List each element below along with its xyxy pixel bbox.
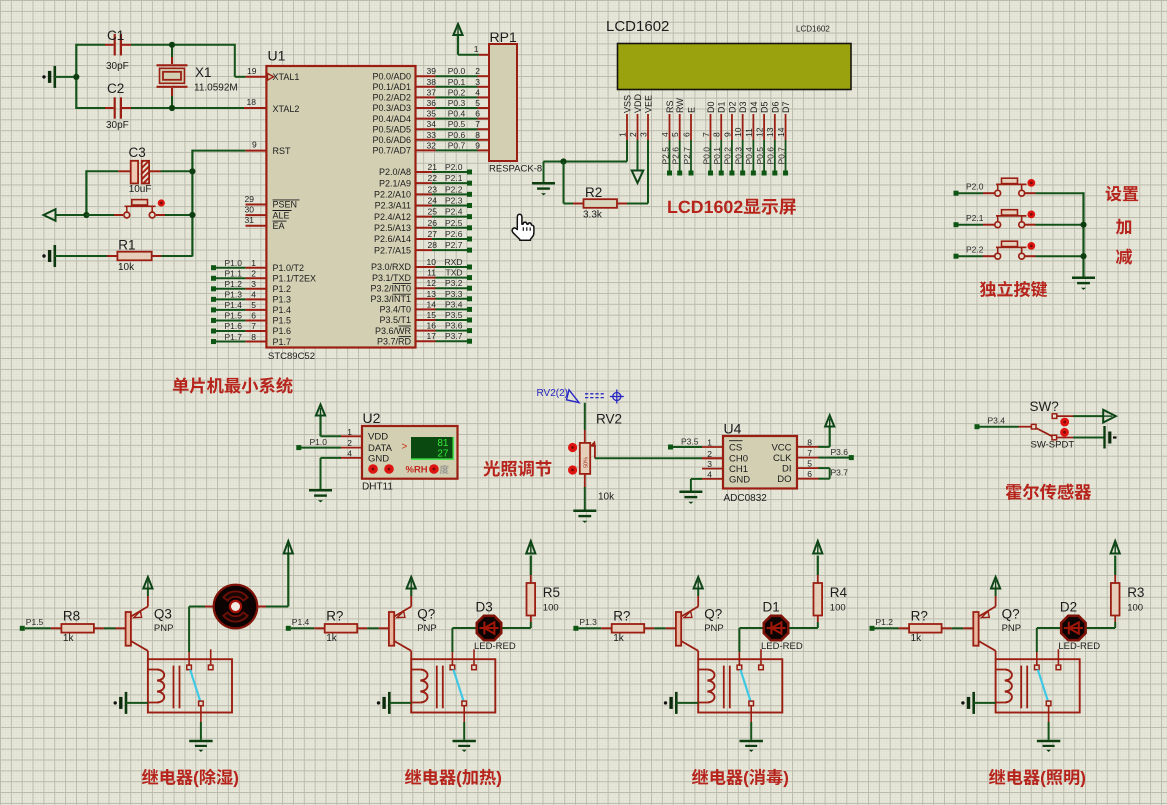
svg-text:34: 34 bbox=[427, 119, 437, 129]
svg-text:P1.3: P1.3 bbox=[225, 290, 243, 300]
svg-text:39: 39 bbox=[427, 66, 437, 76]
svg-text:U1: U1 bbox=[268, 48, 286, 64]
svg-text:33: 33 bbox=[427, 130, 437, 140]
svg-text:36: 36 bbox=[427, 98, 437, 108]
svg-text:7: 7 bbox=[475, 119, 480, 129]
svg-text:RST: RST bbox=[273, 146, 292, 156]
svg-text:8: 8 bbox=[251, 332, 256, 342]
svg-text:PNP: PNP bbox=[1002, 623, 1022, 634]
svg-text:R?: R? bbox=[911, 609, 928, 624]
svg-text:P0.1/AD1: P0.1/AD1 bbox=[372, 82, 411, 92]
svg-text:6: 6 bbox=[475, 109, 480, 119]
svg-text:ALE: ALE bbox=[273, 210, 290, 220]
svg-text:1: 1 bbox=[251, 258, 256, 268]
svg-text:14: 14 bbox=[427, 299, 437, 309]
svg-text:9: 9 bbox=[252, 140, 257, 150]
svg-text:P2.6: P2.6 bbox=[445, 229, 463, 239]
svg-text:P0.4: P0.4 bbox=[744, 147, 754, 165]
svg-text:R8: R8 bbox=[63, 609, 80, 624]
svg-text:7: 7 bbox=[251, 321, 256, 331]
svg-text:4: 4 bbox=[347, 448, 352, 458]
svg-text:P0.7/AD7: P0.7/AD7 bbox=[372, 146, 411, 156]
svg-text:RP1: RP1 bbox=[490, 29, 517, 45]
svg-text:12: 12 bbox=[427, 278, 437, 288]
svg-text:VDD: VDD bbox=[633, 93, 643, 113]
svg-text:10: 10 bbox=[733, 127, 743, 137]
svg-text:2: 2 bbox=[475, 66, 480, 76]
svg-text:31: 31 bbox=[245, 215, 255, 225]
svg-text:P1.7: P1.7 bbox=[225, 332, 243, 342]
svg-text:P0.6: P0.6 bbox=[766, 147, 776, 165]
svg-text:RW: RW bbox=[675, 98, 685, 113]
svg-text:1k: 1k bbox=[326, 633, 338, 644]
svg-text:P1.5: P1.5 bbox=[26, 617, 44, 627]
svg-text:P1.2: P1.2 bbox=[225, 279, 243, 289]
svg-text:R1: R1 bbox=[118, 238, 135, 253]
svg-text:P2.0: P2.0 bbox=[966, 182, 984, 192]
svg-text:P3.6: P3.6 bbox=[445, 321, 463, 331]
svg-text:100: 100 bbox=[543, 603, 559, 614]
svg-text:6: 6 bbox=[251, 311, 256, 321]
svg-text:SW-SPDT: SW-SPDT bbox=[1031, 440, 1075, 451]
svg-text:10: 10 bbox=[427, 257, 437, 267]
svg-text:P1.4: P1.4 bbox=[292, 617, 310, 627]
svg-text:VEE: VEE bbox=[644, 95, 654, 113]
svg-text:P1.0: P1.0 bbox=[310, 437, 328, 447]
svg-text:GND: GND bbox=[368, 453, 389, 464]
svg-text:R4: R4 bbox=[830, 585, 848, 600]
svg-text:1: 1 bbox=[347, 427, 352, 437]
svg-text:X1: X1 bbox=[195, 65, 212, 80]
svg-text:P2.2: P2.2 bbox=[445, 184, 463, 194]
svg-text:9: 9 bbox=[475, 140, 480, 150]
svg-text:D2: D2 bbox=[727, 101, 737, 113]
svg-text:P2.2/A10: P2.2/A10 bbox=[374, 190, 411, 200]
svg-text:C1: C1 bbox=[107, 28, 124, 43]
svg-text:25: 25 bbox=[428, 207, 438, 217]
svg-text:19: 19 bbox=[247, 66, 257, 76]
svg-text:LCD1602: LCD1602 bbox=[796, 25, 830, 34]
svg-text:11: 11 bbox=[427, 268, 436, 278]
svg-text:RESPACK-8: RESPACK-8 bbox=[489, 164, 542, 175]
svg-text:P2.6/A14: P2.6/A14 bbox=[374, 234, 411, 244]
svg-text:P1.6: P1.6 bbox=[273, 326, 292, 336]
svg-text:2: 2 bbox=[628, 132, 638, 137]
svg-text:P2.6: P2.6 bbox=[671, 147, 681, 165]
svg-text:D6: D6 bbox=[770, 101, 780, 113]
svg-text:P3.0/RXD: P3.0/RXD bbox=[371, 262, 412, 272]
svg-text:P1.1/T2EX: P1.1/T2EX bbox=[273, 273, 317, 283]
svg-text:D7: D7 bbox=[781, 101, 791, 113]
svg-text:8: 8 bbox=[807, 437, 812, 447]
svg-text:P1.3: P1.3 bbox=[273, 295, 292, 305]
svg-text:D5: D5 bbox=[760, 101, 770, 113]
svg-text:P0.0: P0.0 bbox=[448, 66, 466, 76]
svg-text:P0.1: P0.1 bbox=[448, 77, 466, 87]
svg-text:29: 29 bbox=[245, 194, 255, 204]
svg-text:P0.6: P0.6 bbox=[448, 130, 466, 140]
svg-text:5: 5 bbox=[670, 132, 680, 137]
svg-text:Q?: Q? bbox=[417, 607, 435, 622]
svg-text:E: E bbox=[687, 107, 697, 113]
svg-text:P1.0: P1.0 bbox=[225, 258, 243, 268]
svg-text:PSEN: PSEN bbox=[273, 200, 298, 210]
svg-text:4: 4 bbox=[251, 290, 256, 300]
svg-text:3: 3 bbox=[475, 77, 480, 87]
svg-text:37: 37 bbox=[427, 87, 437, 97]
svg-text:Q?: Q? bbox=[704, 607, 722, 622]
svg-text:4: 4 bbox=[660, 132, 670, 137]
svg-text:P2.0/A8: P2.0/A8 bbox=[379, 167, 411, 177]
svg-text:P0.4/AD4: P0.4/AD4 bbox=[372, 114, 411, 124]
svg-text:P3.4: P3.4 bbox=[988, 416, 1006, 426]
svg-text:XTAL2: XTAL2 bbox=[273, 104, 300, 114]
svg-text:D2: D2 bbox=[1060, 600, 1077, 615]
svg-text:P3.4/T0: P3.4/T0 bbox=[379, 305, 411, 315]
svg-text:P3.6/WR: P3.6/WR bbox=[375, 326, 412, 336]
svg-text:30: 30 bbox=[245, 205, 255, 215]
svg-text:P2.3/A11: P2.3/A11 bbox=[375, 201, 411, 211]
svg-text:P1.0/T2: P1.0/T2 bbox=[273, 263, 305, 273]
svg-text:P1.1: P1.1 bbox=[225, 268, 243, 278]
svg-text:2: 2 bbox=[707, 449, 712, 459]
svg-text:P0.2: P0.2 bbox=[448, 87, 466, 97]
svg-text:LCD1602: LCD1602 bbox=[606, 18, 669, 35]
svg-text:P2.2: P2.2 bbox=[966, 245, 984, 255]
svg-text:3: 3 bbox=[707, 459, 712, 469]
svg-text:22: 22 bbox=[428, 173, 438, 183]
svg-text:13: 13 bbox=[427, 289, 437, 299]
svg-text:3: 3 bbox=[638, 132, 648, 137]
svg-text:P1.5: P1.5 bbox=[273, 316, 292, 326]
svg-text:P1.3: P1.3 bbox=[579, 617, 597, 627]
svg-text:50%: 50% bbox=[584, 457, 590, 468]
svg-text:CLK: CLK bbox=[773, 453, 792, 464]
svg-text:100: 100 bbox=[1127, 603, 1143, 614]
svg-text:RV2: RV2 bbox=[596, 412, 622, 427]
svg-text:1k: 1k bbox=[63, 633, 75, 644]
svg-text:LED-RED: LED-RED bbox=[474, 641, 516, 652]
svg-text:P3.7: P3.7 bbox=[831, 468, 849, 478]
svg-text:P0.7: P0.7 bbox=[776, 147, 786, 165]
svg-text:P2.5: P2.5 bbox=[445, 218, 463, 228]
svg-text:5: 5 bbox=[475, 98, 480, 108]
svg-text:U2: U2 bbox=[363, 410, 381, 426]
svg-text:P0.0: P0.0 bbox=[701, 147, 711, 165]
svg-text:GND: GND bbox=[729, 474, 750, 485]
svg-text:LED-RED: LED-RED bbox=[761, 641, 803, 652]
svg-text:11: 11 bbox=[744, 128, 754, 137]
svg-text:P2.7/A15: P2.7/A15 bbox=[374, 245, 411, 255]
svg-text:P2.1: P2.1 bbox=[966, 213, 984, 223]
svg-text:P1.6: P1.6 bbox=[225, 321, 243, 331]
svg-text:P1.4: P1.4 bbox=[225, 300, 243, 310]
svg-text:P2.3: P2.3 bbox=[445, 195, 463, 205]
svg-text:P3.4: P3.4 bbox=[445, 299, 463, 309]
svg-text:P0.3: P0.3 bbox=[448, 98, 466, 108]
svg-text:14: 14 bbox=[776, 127, 786, 137]
svg-text:27: 27 bbox=[428, 229, 438, 239]
svg-text:P0.0/AD0: P0.0/AD0 bbox=[372, 71, 411, 81]
svg-text:5: 5 bbox=[807, 459, 812, 469]
svg-text:U4: U4 bbox=[724, 421, 742, 437]
svg-text:P0.7: P0.7 bbox=[448, 140, 466, 150]
svg-text:P3.1/TXD: P3.1/TXD bbox=[372, 273, 412, 283]
svg-text:P2.7: P2.7 bbox=[445, 240, 463, 250]
svg-text:D3: D3 bbox=[476, 600, 493, 615]
svg-text:10k: 10k bbox=[118, 262, 135, 273]
svg-text:2: 2 bbox=[347, 438, 352, 448]
svg-text:D4: D4 bbox=[749, 101, 759, 113]
svg-text:P3.7: P3.7 bbox=[445, 331, 463, 341]
svg-text:16: 16 bbox=[427, 321, 437, 331]
svg-text:18: 18 bbox=[247, 97, 257, 107]
svg-text:PNP: PNP bbox=[704, 623, 724, 634]
svg-text:P3.2/INT0: P3.2/INT0 bbox=[370, 283, 411, 293]
svg-text:30pF: 30pF bbox=[106, 120, 129, 131]
svg-text:35: 35 bbox=[427, 109, 437, 119]
svg-text:P3.3: P3.3 bbox=[445, 289, 463, 299]
svg-text:P0.6/AD6: P0.6/AD6 bbox=[372, 135, 411, 145]
svg-text:1: 1 bbox=[474, 44, 479, 54]
svg-text:P2.0: P2.0 bbox=[445, 162, 463, 172]
svg-text:D0: D0 bbox=[706, 101, 716, 113]
svg-text:P3.5: P3.5 bbox=[681, 437, 699, 447]
svg-text:P1.5: P1.5 bbox=[225, 311, 243, 321]
svg-text:P1.2: P1.2 bbox=[876, 617, 894, 627]
svg-text:8: 8 bbox=[475, 130, 480, 140]
svg-text:P3.3/INT1: P3.3/INT1 bbox=[370, 294, 411, 304]
svg-text:P2.1/A9: P2.1/A9 bbox=[379, 178, 411, 188]
svg-text:RS: RS bbox=[665, 100, 675, 113]
svg-text:3.3k: 3.3k bbox=[583, 210, 603, 221]
svg-text:P2.4: P2.4 bbox=[445, 207, 463, 217]
svg-text:10uF: 10uF bbox=[129, 184, 152, 195]
svg-text:24: 24 bbox=[428, 195, 438, 205]
svg-text:23: 23 bbox=[428, 184, 438, 194]
svg-text:P0.3: P0.3 bbox=[733, 147, 743, 165]
svg-text:D1: D1 bbox=[763, 600, 780, 615]
svg-text:5: 5 bbox=[251, 300, 256, 310]
svg-text:DHT11: DHT11 bbox=[362, 482, 393, 493]
svg-text:26: 26 bbox=[428, 218, 438, 228]
svg-text:D1: D1 bbox=[717, 101, 727, 113]
svg-text:P2.1: P2.1 bbox=[445, 173, 463, 183]
svg-text:Q3: Q3 bbox=[154, 607, 172, 622]
svg-text:PNP: PNP bbox=[417, 623, 437, 634]
svg-text:4: 4 bbox=[707, 469, 712, 479]
svg-text:P0.5: P0.5 bbox=[448, 119, 466, 129]
svg-text:6: 6 bbox=[807, 469, 812, 479]
svg-text:13: 13 bbox=[765, 127, 775, 137]
svg-text:11.0592M: 11.0592M bbox=[194, 83, 238, 94]
svg-text:30pF: 30pF bbox=[106, 61, 129, 72]
svg-text:R2: R2 bbox=[585, 185, 602, 200]
svg-text:P3.2: P3.2 bbox=[445, 278, 463, 288]
svg-text:1: 1 bbox=[707, 438, 712, 448]
svg-text:EA: EA bbox=[273, 221, 285, 231]
svg-text:>: > bbox=[402, 442, 408, 453]
svg-text:RXD: RXD bbox=[445, 257, 463, 267]
svg-text:R5: R5 bbox=[543, 585, 560, 600]
svg-text:P0.3/AD3: P0.3/AD3 bbox=[372, 103, 411, 113]
svg-text:VDD: VDD bbox=[368, 432, 388, 443]
svg-text:LED-RED: LED-RED bbox=[1058, 641, 1100, 652]
svg-text:P0.2/AD2: P0.2/AD2 bbox=[372, 93, 411, 103]
svg-text:7: 7 bbox=[807, 448, 812, 458]
svg-text:1k: 1k bbox=[911, 633, 923, 644]
svg-text:PNP: PNP bbox=[154, 623, 174, 634]
svg-text:P0.1: P0.1 bbox=[712, 147, 722, 165]
svg-text:C3: C3 bbox=[129, 145, 146, 160]
svg-text:15: 15 bbox=[427, 310, 437, 320]
svg-text:ADC0832: ADC0832 bbox=[724, 493, 768, 504]
svg-text:28: 28 bbox=[428, 240, 438, 250]
svg-text:C2: C2 bbox=[107, 81, 124, 96]
svg-text:D3: D3 bbox=[738, 101, 748, 113]
svg-text:8: 8 bbox=[712, 132, 722, 137]
svg-text:2: 2 bbox=[251, 268, 256, 278]
svg-text:P0.5: P0.5 bbox=[755, 147, 765, 165]
svg-text:1: 1 bbox=[617, 132, 627, 137]
svg-text:DO: DO bbox=[777, 474, 791, 485]
svg-text:P1.4: P1.4 bbox=[273, 305, 292, 315]
svg-text:38: 38 bbox=[427, 77, 437, 87]
svg-text:7: 7 bbox=[701, 132, 711, 137]
svg-text:32: 32 bbox=[427, 140, 437, 150]
svg-text:P0.2: P0.2 bbox=[723, 147, 733, 165]
svg-text:DI: DI bbox=[782, 464, 792, 475]
svg-text:Q?: Q? bbox=[1002, 607, 1020, 622]
svg-text:R?: R? bbox=[326, 609, 343, 624]
svg-text:P1.2: P1.2 bbox=[273, 284, 292, 294]
svg-text:TXD: TXD bbox=[446, 268, 463, 278]
svg-text:3: 3 bbox=[251, 279, 256, 289]
svg-text:P2.4/A12: P2.4/A12 bbox=[374, 212, 411, 222]
svg-text:SW?: SW? bbox=[1030, 399, 1059, 414]
svg-text:P3.7/RD: P3.7/RD bbox=[377, 336, 412, 346]
svg-text:%RH: %RH bbox=[406, 465, 428, 476]
svg-text:RV2(2): RV2(2) bbox=[537, 388, 569, 399]
svg-text:P3.5: P3.5 bbox=[445, 310, 463, 320]
svg-text:1k: 1k bbox=[613, 633, 625, 644]
svg-text:P0.5/AD5: P0.5/AD5 bbox=[372, 124, 411, 134]
svg-text:81: 81 bbox=[437, 438, 449, 449]
svg-text:P3.6: P3.6 bbox=[831, 447, 849, 457]
svg-text:12: 12 bbox=[755, 127, 765, 137]
svg-text:100: 100 bbox=[830, 603, 846, 614]
svg-text:P3.5/T1: P3.5/T1 bbox=[379, 315, 411, 325]
svg-text:P1.7: P1.7 bbox=[273, 337, 292, 347]
svg-text:27: 27 bbox=[437, 449, 449, 460]
svg-text:21: 21 bbox=[428, 162, 438, 172]
svg-text:17: 17 bbox=[427, 331, 437, 341]
svg-text:R3: R3 bbox=[1127, 585, 1144, 600]
svg-text:VCC: VCC bbox=[771, 442, 791, 453]
svg-text:P2.5/A13: P2.5/A13 bbox=[374, 223, 411, 233]
svg-text:STC89C52: STC89C52 bbox=[268, 351, 315, 362]
svg-text:P2.7: P2.7 bbox=[682, 147, 692, 165]
svg-text:9: 9 bbox=[722, 132, 732, 137]
svg-text:XTAL1: XTAL1 bbox=[273, 72, 300, 82]
svg-text:4: 4 bbox=[475, 87, 480, 97]
svg-text:P0.4: P0.4 bbox=[448, 109, 466, 119]
svg-text:VSS: VSS bbox=[623, 95, 633, 113]
svg-text:R?: R? bbox=[613, 609, 630, 624]
svg-text:6: 6 bbox=[681, 132, 691, 137]
svg-text:CS: CS bbox=[729, 442, 742, 453]
svg-text:P2.5: P2.5 bbox=[660, 147, 670, 165]
svg-text:10k: 10k bbox=[598, 492, 615, 503]
